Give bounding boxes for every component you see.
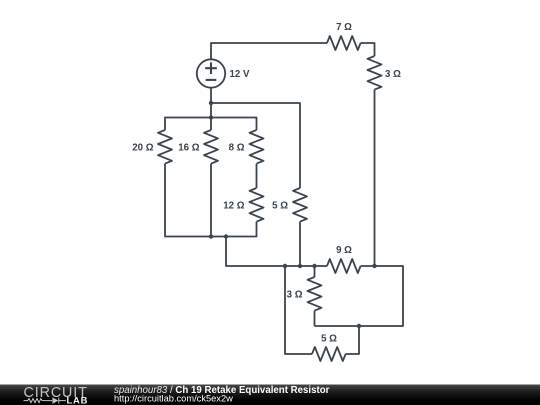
svg-text:12 Ω: 12 Ω <box>223 200 244 211</box>
wire 8ohm to 12ohm <box>256 164 258 188</box>
svg-text:12 V: 12 V <box>230 69 250 80</box>
wire 16ohm bottom lead <box>210 164 212 237</box>
wire 3ohm lower top lead <box>314 266 316 277</box>
wire drop to node A rail <box>226 237 327 267</box>
resistor R 9ohm horizontal <box>327 259 361 273</box>
resistor R 7ohm horizontal <box>327 36 361 50</box>
resistor R 8ohm vertical <box>250 130 264 164</box>
junction 16ohm bottom <box>209 234 213 238</box>
svg-text:http://circuitlab.com/ck5ex2w: http://circuitlab.com/ck5ex2w <box>114 394 233 404</box>
resistor R 3ohm lower vertical <box>308 277 322 311</box>
wire right branch down <box>374 90 376 266</box>
wire bottom rail of parallel bank <box>165 164 257 237</box>
resistor R 3ohm upper right vertical <box>368 56 382 90</box>
wire 5ohm loop left+bottom <box>285 266 312 354</box>
voltage source V1 12V <box>197 59 225 87</box>
junction node at V1 minus <box>209 101 213 105</box>
junction right branch meets 9ohm <box>372 264 376 268</box>
svg-text:16 Ω: 16 Ω <box>178 142 199 153</box>
wire 3ohm lower bottom lead <box>314 311 316 326</box>
svg-text:20 Ω: 20 Ω <box>132 142 153 153</box>
resistor R 16ohm vertical <box>204 130 218 164</box>
wire 5ohm parallel bottom lead <box>299 222 301 266</box>
svg-text:LAB: LAB <box>67 395 89 405</box>
svg-text:5 Ω: 5 Ω <box>272 200 288 211</box>
svg-text:9 Ω: 9 Ω <box>336 245 352 256</box>
junction 5ohm loop right <box>357 324 361 328</box>
resistor R 20ohm vertical <box>158 130 172 164</box>
svg-text:7 Ω: 7 Ω <box>336 22 352 33</box>
resistor R 12ohm vertical <box>250 188 264 222</box>
wire top rail of parallel bank <box>165 118 257 131</box>
wire 5ohm loop right <box>346 326 359 354</box>
wire V1 bottom lead <box>210 88 212 118</box>
wire V1 top to R 7ohm <box>211 43 327 59</box>
wire R7 to R3 top <box>361 43 375 56</box>
svg-text:5 Ω: 5 Ω <box>321 334 337 345</box>
svg-text:3 Ω: 3 Ω <box>287 289 303 300</box>
wire right of 9ohm down to node B <box>315 266 404 326</box>
junction drop wire <box>224 234 228 238</box>
junction top rail <box>209 115 213 119</box>
wire to 5ohm parallel branch top <box>211 103 300 188</box>
CircuitLab logo wire with resistor and diode <box>24 398 67 404</box>
junction 3ohm lower top <box>312 264 316 268</box>
resistor R 5ohm parallel vertical <box>293 188 307 222</box>
svg-text:8 Ω: 8 Ω <box>229 142 245 153</box>
junction 5ohm loop left <box>283 264 287 268</box>
resistor R 5ohm bottom horizontal <box>312 347 346 361</box>
wire 16ohm top lead <box>210 118 212 131</box>
svg-text:3 Ω: 3 Ω <box>385 69 401 80</box>
footer bar <box>0 385 540 405</box>
junction 5ohm parallel bottom <box>298 264 302 268</box>
